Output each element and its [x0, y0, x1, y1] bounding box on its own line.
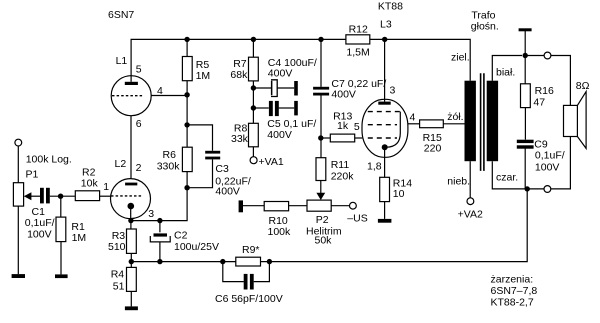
svg-text:100V: 100V: [27, 228, 52, 240]
svg-text:+VA2: +VA2: [458, 208, 483, 220]
svg-text:220k: 220k: [331, 170, 355, 182]
svg-text:głośn.: głośn.: [471, 20, 499, 32]
capacitor C6: [244, 274, 254, 290]
capacitor C9: [517, 140, 534, 149]
input terminal: [15, 139, 22, 146]
terminal output top: [544, 52, 551, 59]
svg-text:KT88: KT88: [378, 1, 403, 13]
transformer primary winding: [465, 81, 476, 162]
svg-text:L1: L1: [116, 55, 128, 67]
resistor R5: [182, 57, 192, 81]
wire P1 to ground: [17, 206, 19, 274]
svg-text:żół.: żół.: [447, 111, 463, 123]
svg-text:3: 3: [390, 85, 396, 97]
ground C5: [294, 101, 298, 116]
svg-text:czar.: czar.: [496, 171, 518, 183]
svg-text:100k: 100k: [268, 226, 292, 238]
svg-text:P1: P1: [26, 169, 39, 181]
svg-text:6SN7: 6SN7: [108, 9, 134, 21]
svg-text:żarzenia:: żarzenia:: [491, 274, 534, 286]
wire C6 loop: [223, 262, 270, 282]
wire KT88 cathode to R14: [384, 147, 386, 177]
node C2 bottom: [157, 259, 162, 264]
wire C5 to ground: [279, 107, 295, 109]
svg-text:1M: 1M: [196, 70, 211, 82]
node C7 top: [318, 37, 323, 42]
pentode KT88: [362, 99, 408, 157]
wire R13 to KT88 grid pin 5: [355, 137, 363, 139]
svg-text:2: 2: [136, 162, 142, 174]
speaker 8 ohm: [564, 92, 587, 149]
capacitor C3: [205, 151, 220, 160]
wire secondary top: [492, 56, 522, 81]
wire R6 bottom: [131, 172, 187, 221]
svg-text:–US: –US: [347, 213, 367, 225]
wire C5 lead: [253, 107, 268, 109]
node R6 top C3 top: [184, 122, 189, 127]
svg-text:10k: 10k: [81, 177, 99, 189]
ground P1: [12, 274, 25, 278]
terminal +VA1: [250, 157, 257, 164]
wire C2 bottom lead: [159, 242, 161, 262]
wire L2 cathode junction: [130, 221, 132, 229]
svg-text:220: 220: [424, 142, 442, 154]
svg-text:510: 510: [108, 241, 126, 253]
potentiometer P2: [307, 200, 331, 211]
svg-text:4: 4: [410, 111, 416, 123]
svg-text:R11: R11: [331, 159, 350, 171]
node R9 C6 left: [220, 259, 225, 264]
svg-text:C2: C2: [174, 230, 188, 242]
svg-text:6: 6: [136, 118, 142, 130]
resistor R1: [56, 217, 66, 242]
P2 wiper arrow: [316, 193, 325, 200]
node C5: [251, 105, 256, 110]
svg-text:51: 51: [113, 280, 125, 292]
svg-text:3: 3: [148, 208, 154, 220]
wire R5 bottom to R6 top: [186, 39, 188, 146]
svg-text:biał.: biał.: [496, 67, 515, 79]
wire R1 top: [60, 196, 62, 217]
wire primary bottom to VA2: [469, 161, 471, 198]
terminal -US: [350, 202, 357, 209]
svg-text:400V: 400V: [215, 186, 240, 198]
terminal +VA2: [467, 198, 474, 205]
wire terminal to speaker bottom: [551, 137, 571, 189]
wire node to output terminal bottom: [527, 188, 544, 190]
ground secondary top: [519, 28, 532, 55]
svg-text:0,1uF/: 0,1uF/: [535, 150, 565, 162]
ground C4: [294, 81, 298, 96]
potentiometer P1: [13, 183, 23, 206]
svg-text:47: 47: [533, 96, 545, 108]
wire R16 to C9: [524, 108, 526, 140]
wire C3 top lead: [187, 125, 212, 151]
wire C1 to R2: [50, 195, 76, 197]
svg-text:100k Log.: 100k Log.: [26, 154, 72, 166]
resistor R4: [127, 267, 137, 291]
transformer secondary winding: [487, 81, 498, 162]
resistor R6: [182, 147, 192, 171]
P1 wiper arrow: [24, 192, 32, 200]
svg-text:1,8: 1,8: [367, 160, 382, 172]
ground R14: [378, 219, 392, 223]
wire R14 to ground: [384, 202, 386, 219]
svg-text:10: 10: [393, 188, 405, 200]
wire C9 bottom: [524, 149, 526, 189]
triode L2: [111, 179, 151, 219]
node cathode junction: [128, 218, 133, 223]
node L3 anode: [382, 37, 387, 42]
wire R15 to transformer tap: [443, 123, 464, 125]
capacitor C1: [40, 188, 50, 204]
node R6 bottom C3 bottom: [184, 185, 189, 190]
svg-text:1M: 1M: [72, 232, 87, 244]
wire C2 top lead: [159, 221, 161, 233]
node R9 C6 right: [267, 259, 272, 264]
wire R8 to VA1: [252, 147, 254, 157]
node C4: [251, 85, 256, 90]
ground R4: [125, 306, 138, 310]
wire R2 to L2 grid pin 1: [100, 195, 111, 197]
svg-text:8Ω: 8Ω: [576, 80, 590, 92]
svg-text:100u/25V: 100u/25V: [174, 241, 219, 253]
svg-text:68k: 68k: [230, 69, 248, 81]
svg-text:+VA1: +VA1: [259, 156, 284, 168]
svg-text:50k: 50k: [315, 234, 333, 246]
svg-text:0,1uF/: 0,1uF/: [25, 217, 55, 229]
svg-text:5: 5: [354, 121, 360, 133]
wire L1 cathode to L2 anode: [130, 116, 132, 183]
svg-text:R16: R16: [535, 85, 554, 97]
resistor R8: [249, 123, 259, 147]
node secondary ground R16: [523, 53, 528, 58]
svg-text:L3: L3: [380, 18, 392, 30]
svg-text:6SN7–7,8: 6SN7–7,8: [491, 285, 538, 297]
svg-text:nieb.: nieb.: [447, 175, 470, 187]
resistor R10: [264, 202, 288, 211]
svg-text:R9*: R9*: [242, 244, 260, 256]
resistor R3: [127, 229, 137, 253]
wire C7 bottom lead: [320, 96, 322, 158]
wire R10 left to ground: [243, 205, 264, 207]
wire L1 grid pin 4: [151, 95, 187, 97]
node C1 R1 R2: [58, 194, 63, 199]
node C2 top tap: [157, 218, 162, 223]
svg-text:400V: 400V: [331, 88, 356, 100]
wire R16 top: [524, 56, 526, 84]
transformer core: [481, 73, 484, 171]
resistor R11: [316, 158, 326, 181]
node R7 top: [251, 37, 256, 42]
node pin4 R5 bottom: [184, 92, 189, 97]
node C9 czar feedback: [525, 186, 530, 191]
terminal output bottom: [544, 186, 551, 193]
svg-text:R6: R6: [163, 149, 177, 161]
resistor R2: [75, 191, 99, 201]
wire KT88 screen pin 4: [408, 123, 420, 125]
resistor R13: [330, 134, 354, 142]
wire R3 bottom: [130, 253, 132, 267]
capacitor C4: [271, 80, 294, 97]
capacitor C2: [150, 233, 170, 242]
wire R13: [321, 137, 331, 139]
resistor R15: [420, 120, 444, 128]
node R13 C7 R11: [318, 135, 323, 140]
node R3 R4 feedback: [129, 259, 134, 264]
resistor R14: [380, 177, 390, 201]
svg-text:100V: 100V: [535, 161, 560, 173]
svg-text:KT88-2,7: KT88-2,7: [491, 296, 534, 308]
wire R4 to ground: [130, 291, 132, 306]
wire P2 right to -US: [331, 205, 350, 207]
svg-text:C3: C3: [215, 163, 229, 175]
svg-text:1,5M: 1,5M: [346, 46, 369, 58]
svg-text:C6 56pF/100V: C6 56pF/100V: [215, 293, 283, 305]
capacitor C5: [269, 101, 279, 116]
svg-text:L2: L2: [115, 158, 127, 170]
wire terminal to speaker: [551, 56, 571, 106]
wire R7 bottom to R8 top: [252, 81, 254, 123]
resistor R16: [521, 84, 531, 108]
wire KT88 anode pin 3: [384, 39, 386, 99]
svg-text:R12: R12: [349, 23, 368, 35]
svg-text:4: 4: [157, 85, 163, 97]
resistor R12: [346, 35, 370, 44]
wire C4 lead: [253, 87, 271, 89]
svg-text:1k: 1k: [337, 120, 349, 132]
wire top bus right segment: [370, 39, 470, 80]
svg-text:400V: 400V: [268, 67, 293, 79]
capacitor C7: [313, 87, 329, 96]
triode L1: [111, 75, 151, 116]
ground R1: [55, 274, 68, 278]
wire C3 bottom lead: [187, 159, 212, 187]
svg-text:5: 5: [136, 64, 142, 76]
wire top bus left segment: [131, 39, 346, 75]
wire node to speaker terminal: [525, 55, 544, 57]
svg-text:ziel.: ziel.: [451, 52, 470, 64]
wire R7 top: [252, 39, 254, 57]
svg-text:R4: R4: [111, 269, 125, 281]
ground R10: [239, 200, 243, 212]
wire C7 top lead: [320, 39, 322, 87]
svg-text:330k: 330k: [157, 161, 181, 173]
wire input to P1: [17, 146, 19, 183]
svg-text:1: 1: [103, 181, 109, 193]
resistor R7: [249, 57, 259, 81]
wire secondary bottom czar: [492, 161, 524, 189]
wire R1 to ground: [60, 242, 62, 275]
svg-text:400V: 400V: [267, 129, 292, 141]
wire feedback row: [131, 189, 527, 262]
resistor R9*: [236, 257, 261, 266]
wire P1 wiper to C1: [31, 195, 40, 197]
svg-text:33k: 33k: [231, 133, 249, 145]
wire P2 left to R10: [289, 205, 307, 207]
wire R11 bottom to wiper: [320, 181, 322, 194]
node R5 top: [184, 37, 189, 42]
